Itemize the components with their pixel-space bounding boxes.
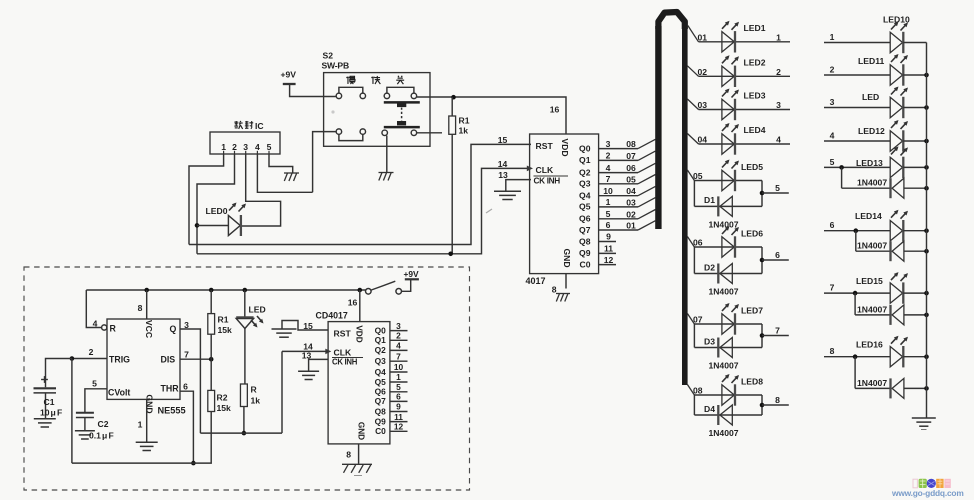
- svg-text:LED2: LED2: [744, 57, 766, 67]
- svg-text:5: 5: [396, 382, 401, 392]
- svg-text:03: 03: [626, 197, 636, 207]
- svg-text:2: 2: [396, 331, 401, 341]
- svg-text:14: 14: [498, 159, 508, 169]
- svg-text:12: 12: [394, 422, 404, 432]
- svg-text:10: 10: [603, 186, 613, 196]
- svg-text:LED8: LED8: [741, 377, 763, 387]
- svg-text:08: 08: [626, 139, 636, 149]
- svg-text:Q8: Q8: [579, 236, 591, 246]
- svg-text:11: 11: [604, 244, 613, 254]
- svg-text:8: 8: [830, 346, 835, 356]
- svg-text:1: 1: [606, 197, 611, 207]
- svg-text:8: 8: [775, 395, 780, 405]
- svg-text:01: 01: [626, 221, 636, 231]
- svg-text:Q3: Q3: [579, 179, 591, 189]
- svg-text:9: 9: [396, 402, 401, 412]
- svg-text:LED: LED: [862, 92, 879, 102]
- svg-text:5: 5: [775, 183, 780, 193]
- svg-text:1N4007: 1N4007: [708, 219, 738, 229]
- svg-text:4: 4: [830, 131, 835, 141]
- svg-text:VCC: VCC: [144, 320, 154, 338]
- svg-text:2: 2: [606, 151, 611, 161]
- svg-text:6: 6: [775, 250, 780, 260]
- svg-text:Q2: Q2: [579, 167, 591, 177]
- svg-text:5: 5: [830, 157, 835, 167]
- svg-text:C0: C0: [580, 259, 591, 269]
- svg-text:1k: 1k: [459, 126, 469, 136]
- svg-text:1: 1: [138, 420, 143, 430]
- svg-text:Q3: Q3: [375, 356, 387, 366]
- svg-text:THR: THR: [161, 384, 180, 394]
- svg-text:LED: LED: [249, 305, 266, 315]
- svg-text:15k: 15k: [217, 403, 232, 413]
- svg-text:Q6: Q6: [375, 387, 387, 397]
- svg-text:8: 8: [552, 285, 557, 295]
- svg-text:2: 2: [89, 347, 94, 357]
- svg-text:RST: RST: [536, 141, 554, 151]
- svg-text:Q5: Q5: [579, 202, 591, 212]
- svg-text:02: 02: [698, 67, 708, 77]
- svg-text:16: 16: [550, 105, 560, 115]
- svg-text:9: 9: [606, 232, 611, 242]
- svg-text:1: 1: [830, 32, 835, 42]
- svg-text:05: 05: [693, 171, 703, 181]
- svg-text:R1: R1: [459, 116, 470, 126]
- svg-text:1: 1: [776, 32, 781, 42]
- svg-text:Q5: Q5: [375, 377, 387, 387]
- svg-text:Q0: Q0: [579, 143, 591, 153]
- svg-text:R: R: [110, 324, 117, 334]
- svg-text:CK INH: CK INH: [534, 177, 561, 186]
- svg-text:1N4007: 1N4007: [857, 304, 887, 314]
- svg-text:Q7: Q7: [579, 225, 591, 235]
- svg-text:C0: C0: [375, 426, 386, 436]
- svg-text:3: 3: [396, 321, 401, 331]
- svg-text:06: 06: [626, 163, 636, 173]
- svg-text:D2: D2: [704, 262, 715, 272]
- svg-text:CK INH: CK INH: [332, 358, 358, 367]
- svg-text:1N4007: 1N4007: [708, 361, 738, 371]
- svg-text:15k: 15k: [218, 325, 233, 335]
- svg-text:LED16: LED16: [856, 340, 883, 350]
- svg-text:06: 06: [693, 238, 703, 248]
- svg-text:1: 1: [396, 372, 401, 382]
- svg-text:D3: D3: [704, 336, 715, 346]
- svg-text:02: 02: [626, 209, 636, 219]
- svg-text:Q: Q: [170, 324, 177, 334]
- svg-text:F: F: [57, 408, 62, 418]
- svg-text:μ: μ: [102, 431, 107, 441]
- svg-text:+9V: +9V: [281, 70, 297, 80]
- svg-text:01: 01: [698, 32, 708, 42]
- svg-text:Q0: Q0: [375, 325, 387, 335]
- svg-text:12: 12: [604, 255, 614, 265]
- svg-text:Q6: Q6: [579, 214, 591, 224]
- svg-text:7: 7: [184, 350, 189, 360]
- svg-text:5: 5: [92, 379, 97, 389]
- svg-text:6: 6: [396, 392, 401, 402]
- svg-text:μ: μ: [51, 408, 56, 418]
- svg-text:GND: GND: [357, 422, 366, 440]
- svg-text:LED14: LED14: [855, 211, 882, 221]
- svg-text:1: 1: [221, 142, 226, 152]
- svg-text:NE555: NE555: [158, 406, 186, 416]
- svg-text:11: 11: [394, 412, 403, 422]
- svg-text:Q4: Q4: [579, 191, 591, 201]
- svg-text:1N4007: 1N4007: [857, 178, 887, 188]
- svg-text:2: 2: [830, 65, 835, 75]
- svg-text:07: 07: [693, 315, 703, 325]
- svg-text:VDD: VDD: [355, 325, 364, 342]
- svg-text:4: 4: [606, 163, 611, 173]
- svg-text:Q1: Q1: [579, 155, 591, 165]
- svg-text:R1: R1: [218, 315, 229, 325]
- svg-text:DIS: DIS: [161, 355, 176, 365]
- svg-text:15: 15: [303, 321, 313, 331]
- svg-text:LED13: LED13: [856, 158, 883, 168]
- svg-text:4: 4: [255, 142, 260, 152]
- svg-text:LED7: LED7: [741, 306, 763, 316]
- svg-text:LED12: LED12: [858, 126, 885, 136]
- svg-text:6: 6: [830, 220, 835, 230]
- svg-text:08: 08: [693, 386, 703, 396]
- svg-text:3: 3: [606, 139, 611, 149]
- svg-text:LED3: LED3: [744, 91, 766, 101]
- svg-text:13: 13: [498, 170, 508, 180]
- svg-text:LED11: LED11: [858, 56, 884, 66]
- svg-text:2: 2: [232, 142, 237, 152]
- svg-text:RST: RST: [334, 329, 352, 339]
- svg-text:7: 7: [830, 283, 835, 293]
- svg-text:D1: D1: [704, 195, 715, 205]
- svg-text:Q8: Q8: [375, 406, 387, 416]
- svg-text:TRIG: TRIG: [109, 355, 130, 365]
- svg-text:05: 05: [626, 174, 636, 184]
- svg-text:1N4007: 1N4007: [708, 287, 738, 297]
- svg-text:3: 3: [243, 142, 248, 152]
- svg-text:5: 5: [606, 209, 611, 219]
- svg-text:Q9: Q9: [375, 416, 387, 426]
- svg-text:Q4: Q4: [375, 367, 387, 377]
- svg-text:13: 13: [302, 351, 312, 361]
- svg-text:www.go-gddq.com: www.go-gddq.com: [891, 488, 964, 498]
- svg-text:CLK: CLK: [536, 165, 554, 175]
- svg-text:4: 4: [93, 319, 98, 329]
- svg-text:CVolt: CVolt: [108, 388, 130, 398]
- svg-text:CD4017: CD4017: [316, 311, 348, 321]
- svg-text:6: 6: [606, 220, 611, 230]
- svg-text:IC: IC: [255, 121, 264, 131]
- svg-text:Q2: Q2: [375, 345, 387, 355]
- svg-text:8: 8: [346, 450, 351, 460]
- svg-text:2: 2: [776, 67, 781, 77]
- svg-text:0.1: 0.1: [89, 431, 101, 441]
- svg-text:6: 6: [183, 382, 188, 392]
- svg-text:8: 8: [138, 303, 143, 313]
- svg-text:Q9: Q9: [579, 248, 591, 258]
- svg-text:C2: C2: [98, 419, 109, 429]
- svg-text:1N4007: 1N4007: [857, 241, 887, 251]
- svg-text:04: 04: [698, 135, 708, 145]
- svg-text:LED0: LED0: [206, 206, 228, 216]
- svg-text:04: 04: [626, 186, 636, 196]
- svg-text:LED4: LED4: [744, 125, 766, 135]
- svg-text:7: 7: [606, 174, 611, 184]
- svg-text:1N4007: 1N4007: [857, 378, 887, 388]
- svg-text:+9V: +9V: [404, 269, 420, 279]
- svg-text:CLK: CLK: [334, 348, 352, 358]
- svg-text:07: 07: [626, 151, 636, 161]
- svg-text:4: 4: [396, 341, 401, 351]
- svg-text:1k: 1k: [251, 396, 261, 406]
- svg-text:Q7: Q7: [375, 396, 387, 406]
- svg-text:C1: C1: [44, 397, 55, 407]
- svg-text:4: 4: [776, 135, 781, 145]
- svg-text:7: 7: [775, 326, 780, 336]
- svg-text:R2: R2: [217, 393, 228, 403]
- svg-text:LED5: LED5: [741, 162, 763, 172]
- svg-text:3: 3: [776, 100, 781, 110]
- svg-text:4017: 4017: [526, 276, 546, 286]
- svg-text:15: 15: [498, 135, 508, 145]
- svg-text:D4: D4: [704, 404, 715, 414]
- svg-text:LED1: LED1: [744, 23, 766, 33]
- svg-text:16: 16: [348, 298, 358, 308]
- svg-text:S2: S2: [323, 51, 334, 61]
- svg-text:7: 7: [396, 351, 401, 361]
- svg-text:LED6: LED6: [741, 229, 763, 239]
- svg-text:10: 10: [394, 362, 404, 372]
- svg-text:1N4007: 1N4007: [708, 428, 738, 438]
- svg-text:3: 3: [830, 97, 835, 107]
- svg-text:SW-PB: SW-PB: [322, 61, 349, 71]
- svg-text:Q1: Q1: [375, 335, 387, 345]
- svg-text:10: 10: [40, 408, 50, 418]
- svg-text:03: 03: [698, 100, 708, 110]
- svg-text:5: 5: [267, 142, 272, 152]
- svg-text:LED15: LED15: [856, 276, 883, 286]
- svg-text:VDD: VDD: [560, 138, 570, 156]
- svg-text:GND: GND: [562, 248, 572, 267]
- svg-text:F: F: [109, 431, 114, 441]
- svg-text:R: R: [251, 385, 258, 395]
